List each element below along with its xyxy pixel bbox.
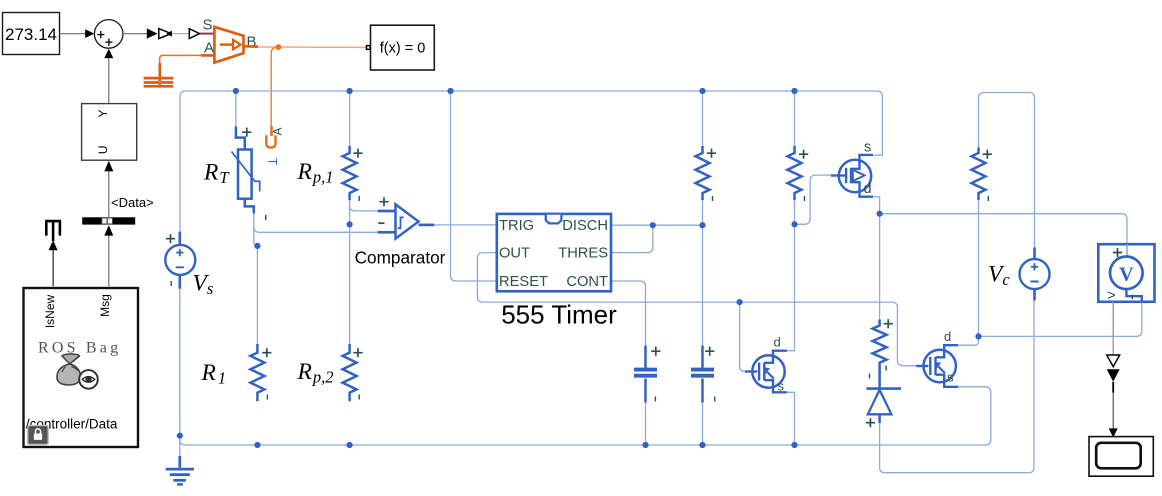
voltmeter block [1098,244,1154,302]
junction R_p divider node [347,221,353,227]
C2 plus mark [705,347,714,356]
comparator minus input mark [378,222,384,224]
wire R_T branch top [235,91,237,128]
wire U/Y block to sum [108,58,110,104]
junction top bus / R_p branch [347,88,353,94]
R_T plus mark [242,128,251,137]
wire DISCH net [611,224,703,226]
wire Q1 drain down [874,197,880,214]
comparator op-amp [378,210,396,213]
wire Q1 drain node to voltmeter plus [880,214,1127,245]
svg-text:A: A [204,40,214,57]
C2 minus tick [714,397,716,402]
R5 minus tick right [885,366,887,371]
svg-text:DISCH: DISCH [562,218,608,234]
diode D1 [878,368,881,388]
R_p,1 plus mark [353,149,362,158]
svg-text:Msg: Msg [98,294,112,317]
resistor R2 [696,146,710,200]
svg-text:THRES: THRES [558,245,608,261]
svg-text:T: T [266,158,280,166]
scope block [1089,437,1153,477]
junction bottom bus / R_1 node [254,442,260,448]
thermal reference ground [159,63,162,82]
junction bottom bus / Q2 source node [791,442,797,448]
R4 minus tick [987,196,989,201]
wire R2 bottom through DISCH node to cap C2 [702,200,704,347]
wire sum to converter [123,33,147,35]
555 Timer block [497,214,611,291]
svg-text:d: d [774,335,781,350]
wire OUT net to gates [477,253,917,366]
svg-text:<Data>: <Data> [111,195,154,210]
svg-text:A: A [271,127,285,135]
svg-text:IsNew: IsNew [43,294,57,328]
R_p,2 minus tick [358,395,360,400]
svg-text:RT: RT [203,160,230,188]
wire B junction down to thermistor thermal port [271,47,277,126]
junction R_T / R_1 node [254,243,260,249]
svg-text:RESET: RESET [499,274,548,290]
svg-text:V: V [1119,263,1134,285]
wire OUT branch to Q2 gate [740,302,746,371]
svg-text:Rp,1: Rp,1 [297,159,334,187]
R3 plus mark [799,150,808,159]
wire node to comparator minus [254,227,379,233]
capacitor C1 [644,346,647,369]
junction bottom bus / C1 node [642,442,648,448]
junction top bus / RESET branch [447,88,453,94]
R3 minus tick [804,196,806,201]
svg-text:555 Timer: 555 Timer [501,300,617,330]
controlled temperature source U_T [214,27,243,63]
voltage source Vc [1020,259,1050,289]
resistor R_p,1 [343,146,357,200]
wire short top bus R4 to Vc [979,93,1035,249]
junction ground node [177,433,183,439]
junction top bus / R2 branch [699,88,705,94]
junction top bus / R3 branch [791,88,797,94]
svg-text:S: S [202,17,212,34]
transistor Q2 [745,351,787,393]
arrow into U/Y bottom [108,171,110,217]
wire Q2 source to bus [787,392,795,445]
svg-text:s: s [947,370,954,385]
resistor R5 diode branch [873,320,887,369]
thermal port connector capsule [266,135,275,147]
svg-text:ROS Bag: ROS Bag [38,340,121,357]
resistor R4 [972,148,986,201]
wire R_p branch top [349,91,351,147]
svg-text:Vs: Vs [193,271,214,299]
wire CONT down to cap C1 [611,281,646,347]
svg-text:R1: R1 [201,360,227,388]
junction top bus / R_T branch [233,88,239,94]
junction bottom bus / C2 node [699,442,705,448]
junction DISCH / C2 node [699,222,705,228]
wire Q1 drain node down to R5 [879,214,881,320]
wire Q3 drain node to voltmeter minus [979,302,1142,337]
junction R3 / Q1 gate node [791,221,797,227]
svg-text:CONT: CONT [566,274,608,290]
bus selector bar [82,217,135,224]
svg-text:d: d [944,329,951,344]
svg-text:B: B [246,34,256,51]
lock badge [28,426,49,445]
arrow into bus selector from ROS Bag Msg [108,235,110,286]
wire top supply bus [180,91,882,232]
voltage source Vs [165,245,195,275]
wire node to comparator plus [350,206,379,211]
Vs minus tick [170,281,172,286]
C1 minus tick [654,397,656,402]
capacitor C2 [701,346,704,369]
component labels math italic [193,159,1011,388]
svg-text:s: s [864,140,871,156]
resistor R3 [788,146,802,200]
C1 plus mark [651,347,660,356]
svg-text:Comparator: Comparator [355,248,446,268]
ROS Bag block [24,288,139,447]
Simulink-PS converter [147,28,158,38]
R_1 minus tick [266,395,268,400]
voltmeter PS wire [1112,301,1114,355]
R2 minus tick [712,196,714,201]
electrical ground [178,456,181,468]
R_p,2 plus mark [353,348,362,357]
wire Vs top [179,232,181,246]
wire R3 branch top [794,91,796,147]
R_T minus tick [265,215,267,220]
wire A port to thermal reference [201,54,214,57]
wire R_p1 bottom to R_p2 top [349,200,351,345]
wire comparator out to TRIG [434,224,497,226]
wire cap C2 bottom to bus [702,402,704,445]
R2 plus mark [707,149,716,158]
wire R3 node down to Q2 drain [787,224,795,350]
wire ground bus bottom [180,387,991,445]
PS wire to temp source S port [172,33,189,35]
wire bus to RESET [451,91,497,281]
wire Vs bottom to ground node [179,274,181,457]
comparator plus input mark [379,197,388,206]
junction Q1 drain node [877,211,883,217]
transistor Q3 [916,345,958,387]
svg-text:OUT: OUT [499,246,530,262]
solver configuration f(x)=0 [371,25,435,70]
resistor R_1 [250,344,264,401]
junction OUT / Q2 gate node [737,299,743,305]
constant block 273.14 [3,13,60,55]
svg-text:>: > [1107,288,1115,304]
diode plus mark [866,418,875,427]
wire THRES up to DISCH [611,225,653,252]
R4 plus mark [983,150,992,159]
wire Q3 drain to node [958,336,978,345]
R_p,1 minus tick [358,196,360,201]
junction DISCH / THRES node [650,222,656,228]
wire R2 branch top [702,91,704,147]
junction bottom bus / R_p,2 node [347,442,353,448]
PS-Simulink converter [1107,355,1120,367]
wire R_T bottom to R_1 / node [254,213,258,345]
arrow ROS Bag IsNew to terminator [52,250,54,286]
Vs plus mark [166,234,175,243]
svg-text:Y: Y [96,109,110,117]
resistor R_p,2 [343,344,357,401]
mosfet terminal labels [774,140,955,394]
wire diode bottom to Vc minus [880,300,1034,473]
wire R3 bottom to Q1 gate [795,175,833,224]
svg-text:d: d [864,181,872,197]
wire constant to sum [60,33,87,35]
selector U/Y block [82,104,137,161]
junction R4 / Q3 drain node [975,333,981,339]
svg-text:f(x) = 0: f(x) = 0 [380,41,426,57]
thermistor R_T [236,127,245,150]
svg-text:U: U [96,145,110,154]
R5 plus mark [884,319,893,328]
transistor Q1 [831,155,873,197]
wire cap C1 bottom to bus [645,402,647,445]
polarity marks teal [166,128,992,428]
R_1 plus mark [262,348,271,357]
bag icon [62,354,80,364]
svg-text:Rp,2: Rp,2 [297,359,334,387]
sum junction [94,20,123,49]
wire B port to f(x)=0 and thermistor [244,45,259,48]
svg-text:273.14: 273.14 [5,25,57,44]
terminator for IsNew [45,221,61,241]
wire R4 bottom to Q3 drain node [978,200,980,336]
minus tick marks [171,196,988,402]
svg-text:Vc: Vc [988,262,1010,290]
R5 minus tick left [869,374,871,379]
svg-text:s: s [778,379,785,394]
svg-text:TRIG: TRIG [499,218,534,234]
wire converter to scope [1112,393,1114,429]
